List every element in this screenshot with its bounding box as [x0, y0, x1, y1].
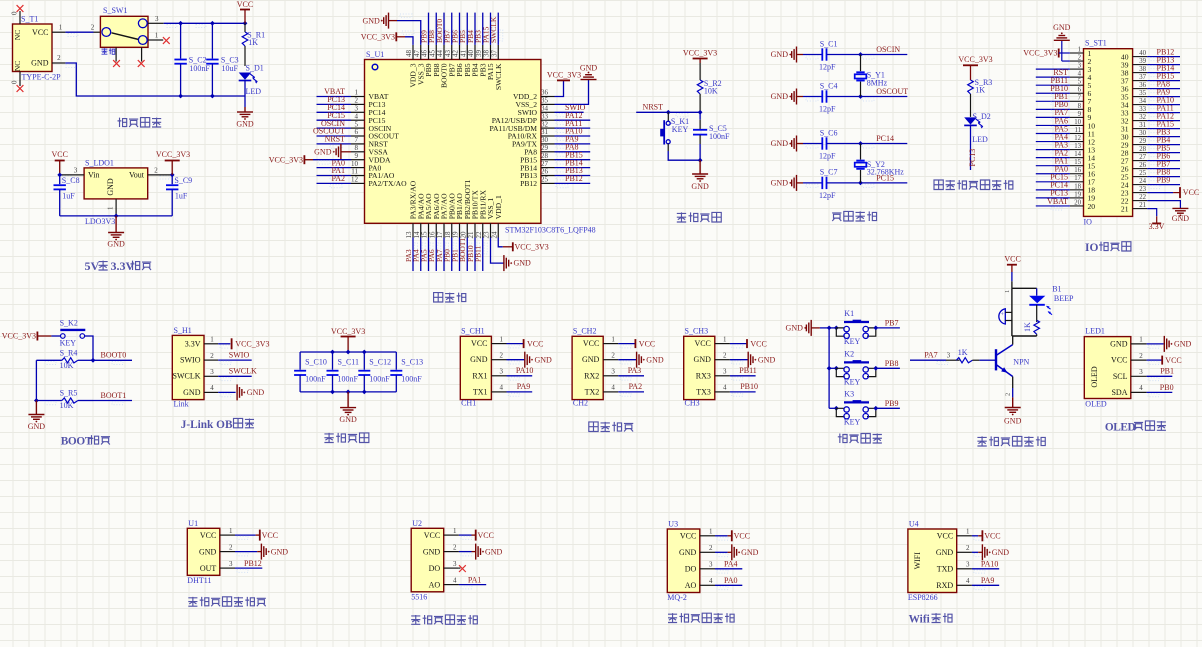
svg-text:GND: GND — [691, 182, 709, 191]
pin 4 of S_CH1 — [491, 384, 506, 392]
svg-text:PA0: PA0 — [724, 576, 738, 585]
power VCC_3V3 at H1 pin 1 — [218, 338, 269, 349]
pin 19 (PB1/AO) of U1 — [452, 223, 460, 238]
switch bottom pin stubs with no-connect X — [113, 47, 145, 67]
svg-text:GND: GND — [936, 548, 954, 557]
svg-text:100nF: 100nF — [338, 375, 359, 384]
wire and net label PB6 (IO pin 27) — [1147, 151, 1180, 164]
svg-text:KEY: KEY — [844, 378, 861, 387]
wire emitter to ground — [1005, 377, 1013, 398]
svg-text:MQ-2: MQ-2 — [667, 593, 687, 602]
resistor S_R4 10K — [36, 348, 93, 369]
pin 29 (PA8) of U1 — [541, 144, 555, 152]
connector LED1 OLED display — [1084, 327, 1131, 409]
svg-text:VCC: VCC — [1183, 188, 1199, 197]
wire and net label PB4 — [466, 13, 480, 45]
wire and net label PA1 (IO pin 15) — [1036, 157, 1070, 170]
ground GND at S_C1 — [771, 47, 803, 63]
pin 20 of S_ST1 (left) — [1070, 199, 1084, 206]
svg-text:GND: GND — [28, 422, 46, 431]
svg-text:VCC: VCC — [583, 339, 599, 348]
pin 39 of S_ST1 (right) — [1133, 58, 1148, 65]
chip internal pin name labels — [369, 63, 538, 219]
ground GND at IO pin 2 — [1053, 23, 1071, 61]
wire and net label PB7 — [443, 13, 457, 45]
svg-text:K1: K1 — [844, 309, 854, 318]
capacitor S_C9 1uF — [166, 175, 192, 216]
wire and net label PA0 at U3 pin 4 — [715, 576, 742, 590]
wire and net label PB13 (IO pin 39) — [1147, 55, 1180, 68]
capacitor S_C12 100nF — [358, 352, 391, 392]
svg-text:GND: GND — [31, 59, 49, 68]
svg-text:GND: GND — [514, 259, 532, 268]
power VCC_3V3 at LDO output — [156, 150, 190, 175]
capacitor S_C2 100nF — [174, 23, 210, 96]
svg-text:3: 3 — [709, 561, 713, 569]
wire and net label PA1 at U2 pin 4 — [459, 575, 486, 589]
svg-text:KEY: KEY — [844, 337, 861, 346]
pin 1 (VCC) of U3 — [700, 528, 715, 536]
svg-text:NRST: NRST — [643, 103, 664, 112]
svg-text:OLED: OLED — [1085, 400, 1107, 409]
junction at C2 bottom — [178, 94, 183, 99]
wire NRST net with label — [636, 103, 700, 117]
svg-text:2: 2 — [91, 24, 95, 32]
svg-text:12pF: 12pF — [819, 105, 836, 114]
power VCC at OLED pin 2 — [1147, 356, 1182, 365]
pin 5 (OSCIN) of U1 — [351, 120, 365, 128]
svg-text:33: 33 — [541, 112, 549, 120]
pin 32 (PA11/USB/DM) of U1 — [541, 120, 555, 128]
pin 2 GND of S_T1 — [52, 54, 76, 68]
pin 19 of S_ST1 (left) — [1070, 191, 1084, 198]
svg-text:VCC: VCC — [51, 150, 67, 159]
wire left bus to ground — [35, 360, 37, 400]
pin 2 of S_CH1 — [491, 352, 506, 360]
pin 2 (GND) of U4 — [957, 544, 972, 552]
LED S_D2 — [964, 112, 991, 170]
svg-text:10K: 10K — [60, 401, 74, 410]
svg-text:KEY: KEY — [844, 418, 861, 427]
ground GND at VSS_3 pin 47 — [362, 13, 420, 45]
pin 2 of S_H1 — [204, 352, 218, 360]
push button K3 KEY — [829, 389, 878, 426]
svg-text:GND: GND — [314, 147, 332, 156]
svg-text:30: 30 — [1139, 130, 1146, 137]
svg-text:NC: NC — [13, 30, 22, 40]
pin 36 (VDD_2) of U1 — [541, 89, 555, 97]
power VCC at U1 pin 1 — [235, 530, 278, 541]
ground GND at VSS_1 pin 23 — [491, 238, 532, 272]
wire and net label PA2 at CH2 pin 4 — [618, 382, 644, 396]
connector S_CH1 — [460, 326, 491, 407]
junction Vin / C8 — [57, 173, 62, 178]
pin 22 (PB11/RX) of U1 — [475, 223, 483, 238]
pin 41 (PB5) of U1 — [459, 45, 467, 60]
svg-text:PB12: PB12 — [244, 559, 262, 568]
wire and net label PB8 — [427, 13, 441, 45]
wire and net label PA7 (IO pin 9) — [1036, 108, 1070, 121]
pin 17 (PA7/AO) of U1 — [436, 223, 444, 238]
svg-text:J-Link OB: J-Link OB — [181, 419, 233, 431]
svg-text:SWCLK: SWCLK — [489, 16, 498, 43]
svg-text:8: 8 — [1078, 103, 1082, 110]
svg-text:20: 20 — [1074, 199, 1081, 206]
svg-text:TX1: TX1 — [473, 387, 488, 396]
pin 4 of S_H1 — [204, 384, 218, 392]
section title 5V转3.3V电路 — [85, 259, 152, 273]
svg-text:PB12: PB12 — [520, 179, 537, 188]
pin 8 (VSSA) of U1 — [351, 144, 365, 152]
wire and net label PA10 at CH1 pin 3 — [507, 366, 534, 380]
svg-text:AO: AO — [685, 581, 697, 590]
wire and net label PB7 at K1 — [876, 319, 900, 328]
wire and net label PA7 to base — [910, 351, 960, 365]
wire and net label SWIO at H1 pin 2 — [218, 351, 252, 365]
svg-text:8: 8 — [355, 144, 359, 152]
wire top rail of filter — [300, 351, 396, 353]
section title IO拓展口 — [1085, 242, 1131, 254]
svg-text:VCC: VCC — [750, 339, 766, 348]
svg-text:VDD_1: VDD_1 — [494, 195, 503, 219]
svg-text:13: 13 — [1074, 143, 1081, 150]
junction BOOT0 node — [91, 358, 96, 363]
svg-text:2: 2 — [229, 543, 233, 551]
svg-text:S_C8: S_C8 — [62, 176, 80, 185]
power VCC_3V3 of BOOT circuit — [2, 332, 52, 341]
wire and net label PC14 (IO pin 18) — [1036, 181, 1070, 194]
svg-text:21: 21 — [1139, 202, 1146, 209]
wire and net label PB11 at CH3 pin 3 — [730, 366, 757, 380]
svg-text:PC14: PC14 — [876, 134, 894, 143]
section title 按键电路 — [838, 433, 882, 443]
svg-text:1: 1 — [966, 528, 970, 536]
svg-text:GND: GND — [535, 355, 553, 364]
svg-text:PA9: PA9 — [981, 576, 995, 585]
svg-text:BOOT0: BOOT0 — [101, 351, 127, 360]
wire and net label RST (IO pin 4) — [1036, 68, 1070, 81]
svg-text:4: 4 — [210, 384, 214, 392]
svg-text:4: 4 — [355, 112, 359, 120]
pin 4 (PC15) of U1 — [351, 112, 365, 120]
wire and net label PB8 (IO pin 25) — [1147, 167, 1180, 180]
svg-text:2: 2 — [355, 97, 359, 105]
svg-text:5516: 5516 — [411, 592, 427, 601]
svg-text:SWCLK: SWCLK — [173, 372, 201, 381]
svg-text:7: 7 — [355, 136, 359, 144]
wire and net label PA15 — [481, 13, 495, 45]
wire and net label PB10 (IO pin 6) — [1036, 84, 1070, 97]
svg-text:PB9: PB9 — [885, 399, 899, 408]
wire and net label NRST — [317, 135, 352, 149]
svg-text:31: 31 — [1139, 122, 1146, 129]
svg-text:32: 32 — [1139, 114, 1146, 121]
svg-text:VCC: VCC — [734, 532, 750, 541]
pin 37 of S_ST1 (right) — [1133, 74, 1148, 81]
svg-text:3: 3 — [229, 560, 233, 568]
section title 串口电路 — [589, 422, 633, 432]
LED S_D1 — [239, 64, 264, 97]
ground GND at S_C4 — [771, 89, 803, 105]
resistor 1K at base — [956, 348, 995, 363]
pin 15 of S_ST1 (left) — [1070, 159, 1084, 166]
junction OSCIN / Y1 — [858, 52, 863, 57]
svg-text:12: 12 — [1074, 135, 1081, 142]
svg-text:3: 3 — [611, 368, 615, 376]
svg-text:NPN: NPN — [1013, 358, 1029, 367]
svg-text:VCC: VCC — [1165, 356, 1181, 365]
power VCC at U2 pin 1 — [459, 530, 494, 541]
push button K1 KEY — [829, 309, 878, 346]
pin 0 bottom of S_T1 with no-connect X — [11, 72, 24, 92]
svg-text:27: 27 — [541, 160, 549, 168]
svg-text:GND: GND — [106, 178, 115, 196]
svg-text:S_C9: S_C9 — [174, 176, 192, 185]
capacitor S_C10 100nF — [294, 352, 327, 392]
svg-text:VCC: VCC — [937, 532, 953, 541]
pin 24 (VDD_1) of U1 — [490, 223, 498, 238]
section title J-Link OB接口 — [181, 418, 254, 430]
LED of B1 — [1029, 285, 1074, 315]
wire GND net from T1 down to bottom rail — [65, 63, 245, 96]
svg-text:VCC_3V3: VCC_3V3 — [235, 340, 269, 349]
svg-text:2: 2 — [709, 544, 713, 552]
svg-text:100nF: 100nF — [189, 64, 210, 73]
pin 11 (PA1/AO) of U1 — [351, 168, 365, 176]
svg-text:VCC_3V3: VCC_3V3 — [156, 150, 190, 159]
svg-text:2: 2 — [500, 352, 504, 360]
svg-text:AO: AO — [429, 580, 441, 589]
wire and net label PA15 (IO pin 31) — [1147, 119, 1180, 132]
svg-text:1: 1 — [59, 24, 63, 32]
svg-text:PA2/TX/AO: PA2/TX/AO — [369, 179, 408, 188]
svg-text:+: + — [1001, 312, 1005, 318]
svg-text:BEEP: BEEP — [1054, 294, 1074, 303]
junction top rail — [362, 350, 367, 355]
svg-text:VCC_3V3: VCC_3V3 — [269, 155, 303, 164]
svg-text:Vin: Vin — [88, 171, 100, 180]
junction bottom rail — [330, 390, 335, 395]
svg-text:S_U1: S_U1 — [366, 50, 384, 59]
pin 48 (VDD_3) of U1 — [405, 45, 413, 60]
svg-text:VCC_3V3: VCC_3V3 — [331, 327, 365, 336]
pin 3 of S_CH2 — [603, 368, 618, 376]
svg-text:2: 2 — [210, 352, 214, 360]
section title BOOT电路 — [61, 435, 110, 447]
wire and net label PA10 at U4 pin 3 — [972, 560, 999, 574]
pin 3 (DO) of U2 — [444, 560, 459, 568]
pin 1 of switch with no-connect X — [148, 31, 170, 44]
svg-text:PB7: PB7 — [885, 319, 899, 328]
svg-text:VCC: VCC — [680, 532, 696, 541]
svg-text:Wifi: Wifi — [909, 614, 930, 626]
wire and net label PA4 at U3 pin 3 — [715, 560, 742, 574]
svg-text:6: 6 — [1078, 87, 1082, 94]
pin 4 of S_CH2 — [603, 384, 618, 392]
pin 3 of S_CH1 — [491, 368, 506, 376]
pin 1 (VCC) of U4 — [957, 528, 972, 536]
svg-text:VCC: VCC — [478, 531, 494, 540]
pin 45 (PB8) of U1 — [428, 45, 436, 60]
wire and net label PB12 — [555, 174, 591, 188]
pin 4 of S_ST1 (left) — [1070, 71, 1084, 78]
pin 3 (OUT) of U1 — [220, 560, 235, 568]
svg-text:S_C6: S_C6 — [820, 128, 838, 137]
svg-text:3: 3 — [1078, 63, 1082, 70]
wire and net label PB1 at OLED pin 3 — [1147, 367, 1174, 381]
pin 31 of S_ST1 (right) — [1133, 122, 1148, 129]
svg-text:SWCLK: SWCLK — [494, 63, 503, 90]
svg-text:S_C11: S_C11 — [338, 358, 360, 367]
pin 13 (PA3/RX/AO) of U1 — [405, 223, 413, 238]
svg-text:IO: IO — [1085, 242, 1098, 254]
svg-text:GND: GND — [183, 388, 201, 397]
ground GND at U2 pin 2 — [459, 544, 503, 560]
svg-text:4: 4 — [723, 384, 727, 392]
pin 36 of S_ST1 (right) — [1133, 82, 1148, 89]
power VCC_3V3 at VDD_2 pin 36 — [547, 71, 581, 97]
svg-text:VCC: VCC — [471, 339, 487, 348]
power VCC of alarm circuit — [1004, 255, 1020, 289]
svg-text:5: 5 — [355, 120, 359, 128]
svg-text:GND: GND — [786, 324, 804, 333]
svg-text:25: 25 — [1139, 170, 1146, 177]
svg-text:GND: GND — [771, 139, 789, 148]
svg-text:PA2: PA2 — [629, 382, 643, 391]
junction BOOT1 / ground bus — [34, 398, 39, 403]
svg-text:GND: GND — [1110, 339, 1128, 348]
pin 1 of S_H1 — [204, 336, 218, 344]
svg-text:SCL: SCL — [1113, 372, 1128, 381]
svg-text:S_H1: S_H1 — [174, 326, 192, 335]
capacitor S_C13 100nF — [390, 352, 423, 392]
power VCC at CH3 pin 1 — [730, 339, 767, 348]
resistor S_R3 1K — [968, 78, 993, 117]
pin 3 Vin of LDO — [60, 167, 84, 180]
svg-text:1: 1 — [611, 335, 615, 343]
svg-text:15: 15 — [1074, 159, 1081, 166]
svg-text:3.3V: 3.3V — [185, 339, 201, 348]
pin 4 of S_CH3 — [715, 384, 730, 392]
svg-text:40: 40 — [1139, 50, 1146, 57]
svg-text:TXD: TXD — [937, 565, 954, 574]
wire from T1 VCC to switch pin 2 — [65, 24, 100, 37]
svg-text:3: 3 — [74, 167, 78, 175]
ground GND at U3 pin 2 — [715, 544, 759, 560]
svg-text:RX2: RX2 — [584, 371, 599, 380]
section title 温湿度检测模块 — [188, 597, 266, 606]
pin 14 (PA4/AO) of U1 — [413, 223, 421, 238]
power VCC_3V3 of filter circuit — [331, 327, 365, 352]
wire and net label OSCIN — [861, 45, 908, 59]
svg-text:4: 4 — [1139, 384, 1143, 392]
svg-text:1: 1 — [709, 528, 713, 536]
svg-text:32: 32 — [541, 120, 549, 128]
svg-text:GND: GND — [247, 388, 265, 397]
pin 8 of S_ST1 (left) — [1070, 103, 1084, 110]
pin 21 of S_ST1 (right) — [1133, 202, 1148, 209]
svg-text:S_ST1: S_ST1 — [1085, 39, 1107, 48]
svg-text:GND: GND — [694, 355, 712, 364]
svg-text:VCC_3V3: VCC_3V3 — [2, 332, 36, 341]
pin 2 (GND) of U2 — [444, 543, 459, 551]
section title OLED显示屏 — [1105, 421, 1166, 433]
wire and net label PA6 (IO pin 10) — [1036, 116, 1070, 129]
svg-text:U3: U3 — [668, 520, 678, 529]
svg-text:35: 35 — [541, 97, 549, 105]
capacitor S_C5 100nF — [693, 112, 730, 160]
pin 3 of LED1 — [1131, 368, 1147, 376]
svg-text:37: 37 — [1139, 74, 1146, 81]
svg-text:10: 10 — [1074, 119, 1081, 126]
svg-text:WIFI: WIFI — [913, 552, 922, 570]
pin 32 of S_ST1 (right) — [1133, 114, 1148, 121]
pin 12 of S_ST1 (left) — [1070, 135, 1084, 142]
wire and net label PA9 — [555, 135, 591, 149]
svg-text:S_C10: S_C10 — [305, 358, 327, 367]
svg-text:17: 17 — [1074, 175, 1081, 182]
svg-text:25: 25 — [541, 176, 549, 184]
pin 44 (BOOT0) of U1 — [436, 45, 444, 60]
pin 2 (GND) of U3 — [700, 544, 715, 552]
pin 30 (PA9/TX) of U1 — [541, 136, 555, 144]
svg-text:PA9: PA9 — [517, 382, 531, 391]
wire and net label PB7 (IO pin 26) — [1147, 159, 1180, 172]
wire and net label PB12 at U1 pin 3 — [235, 559, 262, 573]
wire and net label PB10 at CH3 pin 4 — [730, 382, 758, 396]
svg-text:100nF: 100nF — [709, 132, 730, 141]
svg-text:S_CH2: S_CH2 — [573, 326, 597, 335]
wire and net label PB11 — [474, 238, 488, 272]
svg-text:S_LDO1: S_LDO1 — [85, 159, 114, 168]
connector S_ST1 IO header body — [1084, 39, 1133, 227]
pin 38 (PA15) of U1 — [483, 45, 491, 60]
connector U2 5516 — [411, 519, 444, 602]
wire and net label PB4 (IO pin 29) — [1147, 135, 1180, 148]
regulator S_LDO1 LDO3V3 — [84, 159, 148, 227]
svg-text:TX2: TX2 — [585, 387, 600, 396]
svg-text:37: 37 — [490, 50, 498, 58]
svg-text:1: 1 — [1004, 290, 1011, 293]
wire and net label SWCLK at H1 pin 3 — [218, 367, 257, 381]
svg-text:4: 4 — [500, 384, 504, 392]
svg-text:21: 21 — [1121, 204, 1129, 213]
power VCC_3V3 at VDD_3 pin 48 — [361, 31, 414, 45]
svg-text:LED: LED — [246, 87, 262, 96]
svg-text:1: 1 — [1139, 336, 1143, 344]
pin 20 (PB2/BOOT1) of U1 — [459, 223, 467, 238]
svg-text:GND: GND — [271, 547, 289, 556]
svg-text:2: 2 — [57, 54, 61, 62]
connector S_H1 J-Link — [172, 326, 204, 409]
wire and net label PA3 at CH2 pin 3 — [618, 366, 644, 380]
pin 12 (PA2/TX/AO) of U1 — [351, 176, 365, 184]
svg-text:8MHz: 8MHz — [867, 78, 888, 87]
svg-text:12pF: 12pF — [819, 63, 836, 72]
wire and net label OSCOUT — [313, 127, 351, 141]
wire and net label PA0 (IO pin 16) — [1036, 165, 1070, 178]
ground GND of alarm circuit — [1004, 397, 1022, 425]
wire and net label PA3 (IO pin 13) — [1036, 140, 1070, 153]
svg-text:100nF: 100nF — [401, 375, 422, 384]
svg-text:26: 26 — [541, 168, 549, 176]
pin 1 (VCC) of U2 — [444, 527, 459, 535]
pin 9 (VDDA) of U1 — [351, 152, 365, 160]
wire and net label PC14 — [317, 103, 352, 117]
svg-text:VCC: VCC — [237, 0, 253, 9]
svg-text:SWIO: SWIO — [229, 351, 250, 360]
svg-text:3.3V: 3.3V — [111, 259, 135, 273]
